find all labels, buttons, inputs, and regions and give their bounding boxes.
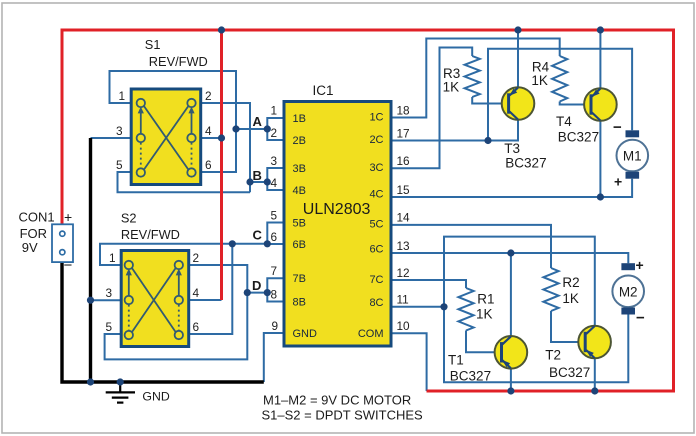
- junction dot node C: [264, 240, 271, 247]
- svg-text:16: 16: [397, 154, 411, 168]
- motor M2: [612, 263, 644, 314]
- wire IC pin18 to R4 top: [392, 39, 560, 118]
- red +9V drop to switch pins 4: [220, 30, 223, 300]
- svg-text:4C: 4C: [369, 189, 383, 201]
- svg-text:7: 7: [271, 264, 278, 278]
- svg-text:T3: T3: [504, 141, 520, 156]
- switch S1 DPDT body: [131, 89, 201, 185]
- wire S1 pin3 to ground column: [91, 137, 131, 139]
- svg-text:13: 13: [397, 239, 411, 253]
- svg-text:GND: GND: [293, 328, 318, 340]
- svg-text:COM: COM: [358, 328, 384, 340]
- svg-text:1: 1: [271, 104, 278, 118]
- svg-text:9: 9: [272, 319, 279, 333]
- svg-text:REV/FWD: REV/FWD: [121, 227, 180, 242]
- svg-text:R4: R4: [532, 59, 550, 74]
- svg-text:11: 11: [397, 293, 409, 307]
- svg-text:R2: R2: [562, 275, 579, 290]
- svg-text:6: 6: [205, 158, 212, 172]
- junction dot node B: [264, 178, 271, 185]
- svg-text:M2: M2: [619, 284, 638, 299]
- wire IC pin14 to R2 top: [392, 225, 551, 268]
- wire node C bracket to IC pins 5,6: [267, 223, 283, 245]
- svg-text:5: 5: [106, 320, 113, 334]
- wire IC pin9 GND to ground rail: [264, 333, 283, 382]
- connector CON1 body: [52, 224, 73, 262]
- wire pin17 node up and over to motor M1 minus: [488, 49, 632, 141]
- wire node A bracket to IC pins 1,2: [267, 118, 283, 140]
- svg-text:T2: T2: [545, 347, 561, 362]
- junction dot ground rail at GND symbol: [117, 378, 124, 385]
- svg-text:5: 5: [271, 209, 278, 223]
- junction dot +9V at T3 emitter: [514, 26, 521, 33]
- wire node D bracket to IC pins 7,8: [267, 278, 283, 301]
- junction dot node D: [264, 289, 271, 296]
- svg-text:1K: 1K: [562, 291, 579, 306]
- wire S1 pin2 down to node B: [202, 103, 250, 192]
- svg-text:1: 1: [109, 251, 116, 265]
- svg-text:14: 14: [397, 211, 411, 225]
- switch S2 contact circles: [125, 261, 183, 339]
- wire pin11 node down and right to motor M2 minus: [444, 307, 628, 383]
- svg-text:9V: 9V: [22, 240, 38, 255]
- svg-text:1K: 1K: [443, 80, 460, 95]
- wire IC pin17 to T3 collector: [392, 120, 518, 141]
- wire pin11 node up to T2 collector: [444, 237, 595, 326]
- wire node A row: [236, 128, 267, 130]
- switch S2 pole links with arrows: [126, 268, 182, 332]
- svg-text:IC1: IC1: [313, 83, 334, 98]
- svg-text:+: +: [64, 209, 72, 225]
- wire IC pin13 row to motor M2 plus: [392, 253, 628, 263]
- wire IC pin15 row to motor M1 plus: [392, 179, 632, 197]
- transistor T3 BC327: [502, 87, 535, 120]
- svg-text:1B: 1B: [293, 113, 306, 125]
- svg-text:1C: 1C: [369, 112, 383, 124]
- svg-text:1: 1: [119, 89, 126, 103]
- wire S2 pin6 column: [190, 244, 232, 334]
- wire node B row: [250, 181, 267, 183]
- svg-text:C: C: [253, 228, 263, 243]
- svg-text:6: 6: [193, 320, 200, 334]
- switch S1 contact circles: [137, 99, 196, 177]
- svg-text:3B: 3B: [293, 163, 306, 175]
- junction dot S1 loop at node A column: [232, 125, 239, 132]
- transistor T2 BC327: [578, 326, 611, 359]
- svg-text:8: 8: [271, 288, 278, 302]
- wire node D row: [247, 292, 267, 294]
- junction dot pin17 node: [484, 137, 491, 144]
- svg-text:BC327: BC327: [450, 368, 491, 383]
- ground symbol: [106, 382, 135, 403]
- junction dot ground rail left: [87, 378, 94, 385]
- svg-text:2C: 2C: [369, 134, 383, 146]
- wire T4 collector down to pin15 row: [599, 121, 601, 197]
- junction dot pin11 node: [440, 303, 447, 310]
- wire S2 pin4 to +9V red line: [190, 299, 222, 301]
- junction dot S2 loop at node C row: [229, 240, 236, 247]
- junction dot S2 pin2 at node D: [244, 289, 251, 296]
- wire S1 pin4 to +9V red line: [202, 137, 222, 139]
- wire S2 pin2 down through node D: [105, 265, 248, 359]
- junction dot T4 collector at pin15 row: [597, 193, 604, 200]
- wire IC pin10 COM to +9V bottom rail: [392, 333, 427, 391]
- svg-text:R1: R1: [477, 292, 494, 307]
- svg-text:M1: M1: [623, 149, 642, 164]
- motor M1: [617, 130, 649, 178]
- junction dot T2 emitter at +9V bottom rail: [591, 387, 598, 394]
- svg-text:2: 2: [193, 251, 200, 265]
- svg-text:18: 18: [397, 104, 411, 118]
- svg-text:A: A: [253, 114, 263, 129]
- svg-text:12: 12: [397, 266, 410, 280]
- svg-text:4: 4: [193, 286, 200, 300]
- svg-text:5B: 5B: [293, 218, 306, 230]
- wire IC pin16 to R3 top: [392, 48, 472, 169]
- svg-text:8C: 8C: [369, 297, 383, 309]
- svg-text:1K: 1K: [476, 306, 493, 321]
- svg-text:1K: 1K: [531, 73, 548, 88]
- svg-text:−: −: [613, 119, 622, 136]
- svg-text:7B: 7B: [293, 273, 306, 285]
- switch S2 DPDT body: [121, 251, 189, 347]
- svg-text:5C: 5C: [369, 219, 383, 231]
- junction dot ground at S2 pin3: [87, 297, 94, 304]
- junction dot +9V at T4 emitter: [597, 26, 604, 33]
- svg-text:S1: S1: [145, 37, 161, 52]
- transistor T1 BC327: [495, 336, 528, 369]
- IC U1 ULN2803 body: [284, 102, 391, 347]
- black ground wire from CON1 minus along bottom: [62, 262, 264, 382]
- svg-text:S1–S2 = DPDT SWITCHES: S1–S2 = DPDT SWITCHES: [262, 408, 424, 423]
- svg-text:BC327: BC327: [505, 156, 546, 171]
- junction dot +9V at S-drop: [218, 26, 225, 33]
- wire T4 emitter to +9V top rail: [599, 30, 601, 88]
- junction dot S1 pin2 at node B: [246, 178, 253, 185]
- svg-text:S2: S2: [121, 210, 137, 225]
- svg-text:+: +: [636, 257, 644, 273]
- svg-text:REV/FWD: REV/FWD: [149, 54, 208, 69]
- svg-text:T1: T1: [448, 352, 464, 367]
- wire IC pin11 row: [392, 306, 444, 308]
- svg-text:FOR: FOR: [20, 226, 47, 241]
- resistor R2 1K zigzag: [543, 268, 558, 311]
- resistor R3 1K zigzag: [465, 56, 480, 97]
- wire T1 emitter to +9V bottom rail: [510, 369, 512, 391]
- svg-text:2B: 2B: [293, 135, 306, 147]
- wire IC pin12 to R1 top: [392, 280, 466, 288]
- svg-text:GND: GND: [142, 389, 169, 403]
- svg-text:3: 3: [106, 286, 113, 300]
- wire R1 bottom to T1 base: [466, 331, 500, 353]
- junction dot T1 collector at pin13 row: [507, 249, 514, 256]
- connector CON1 contacts: [60, 231, 65, 236]
- wire T3 emitter to +9V top rail: [517, 30, 519, 87]
- svg-text:T4: T4: [556, 114, 572, 129]
- red +9V rail top, right and bottom: [62, 30, 674, 391]
- resistor R1 1K zigzag: [458, 288, 473, 331]
- svg-text:3: 3: [271, 154, 278, 168]
- black ground column from S1 pin3: [89, 138, 92, 382]
- svg-text:4: 4: [271, 176, 278, 190]
- svg-text:17: 17: [397, 127, 410, 141]
- svg-text:4B: 4B: [293, 185, 306, 197]
- svg-text:2: 2: [271, 126, 278, 140]
- wire S1 pin1 loop to node A column: [110, 71, 237, 172]
- wire R4 bottom to T4 base: [560, 102, 590, 105]
- svg-text:6B: 6B: [293, 239, 306, 251]
- svg-text:10: 10: [397, 319, 411, 333]
- svg-text:7C: 7C: [369, 274, 383, 286]
- junction dot S1 pin4 on red drop: [218, 134, 225, 141]
- svg-text:5: 5: [116, 158, 123, 172]
- svg-text:3: 3: [116, 124, 123, 138]
- svg-text:−: −: [636, 310, 645, 327]
- svg-text:BC327: BC327: [558, 130, 599, 145]
- svg-text:2: 2: [205, 89, 212, 103]
- wire S2 pin1 loop and node C row: [100, 244, 267, 265]
- wire R2 bottom to T2 base: [551, 311, 584, 342]
- svg-text:6C: 6C: [369, 244, 383, 256]
- svg-text:3C: 3C: [369, 162, 383, 174]
- junction dot node A: [264, 125, 271, 132]
- transistor T4 BC327: [584, 88, 617, 121]
- svg-text:CON1: CON1: [19, 210, 55, 225]
- wire node B bracket to IC pins 3,4: [267, 168, 283, 190]
- svg-text:+: +: [614, 174, 622, 190]
- svg-text:6: 6: [271, 230, 278, 244]
- svg-text:ULN2803: ULN2803: [303, 201, 371, 218]
- svg-text:−: −: [64, 257, 73, 274]
- resistor R4 1K zigzag: [552, 56, 567, 102]
- wire R3 bottom to T3 base: [472, 97, 507, 104]
- wire S1 pin5 bottom loop: [118, 172, 251, 192]
- wire S2 pin3 to ground column: [91, 299, 121, 301]
- junction dot T1 emitter at +9V bottom rail: [507, 387, 514, 394]
- svg-text:4: 4: [205, 124, 212, 138]
- svg-text:B: B: [253, 168, 262, 183]
- svg-text:D: D: [252, 278, 261, 293]
- svg-text:M1–M2 = 9V DC MOTOR: M1–M2 = 9V DC MOTOR: [263, 393, 411, 408]
- wire T1 collector up to pin13 row: [510, 253, 512, 336]
- switch S1 pole links with arrows: [138, 106, 195, 170]
- svg-text:15: 15: [397, 183, 411, 197]
- wire T2 emitter to +9V bottom rail: [594, 359, 596, 392]
- svg-text:BC327: BC327: [549, 365, 590, 380]
- svg-text:8B: 8B: [293, 297, 306, 309]
